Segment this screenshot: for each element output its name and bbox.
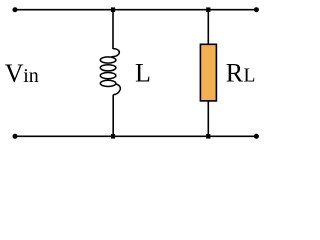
junction top at inductor xyxy=(111,7,115,12)
wire resistor bottom lead xyxy=(207,101,209,136)
wire inductor top lead xyxy=(112,10,114,49)
junction top at resistor xyxy=(206,7,210,12)
node terminal bottom-right xyxy=(254,134,259,139)
resistor RL body xyxy=(200,44,216,101)
junction bottom at inductor xyxy=(111,134,115,139)
wire inductor bottom lead xyxy=(112,95,114,137)
inductor L coil xyxy=(100,49,120,95)
wire top rail xyxy=(15,9,256,11)
node terminal top-left xyxy=(13,7,18,12)
wire resistor top lead xyxy=(207,10,209,45)
wire bottom rail xyxy=(15,135,256,137)
svg-text:in: in xyxy=(23,65,39,87)
svg-text:L: L xyxy=(135,58,151,87)
junction bottom at resistor xyxy=(206,134,210,139)
node terminal bottom-left xyxy=(13,134,18,139)
svg-text:V: V xyxy=(5,59,24,88)
svg-text:L: L xyxy=(244,65,256,86)
node terminal top-right xyxy=(254,7,259,12)
svg-text:R: R xyxy=(226,58,244,87)
